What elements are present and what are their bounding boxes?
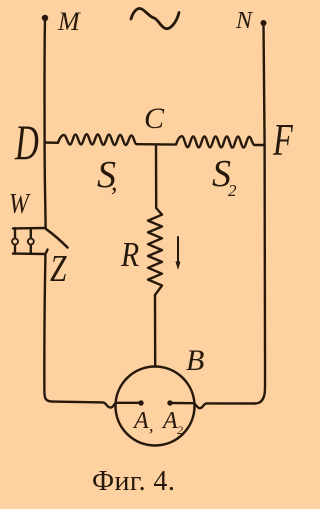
svg-text:F: F bbox=[272, 116, 293, 165]
wire: from A2 out right side of cell bbox=[173, 403, 256, 408]
current direction arrow bbox=[177, 237, 179, 262]
switch: right contact stems bbox=[30, 228, 32, 254]
svg-text:C: C bbox=[144, 102, 165, 135]
svg-text:2: 2 bbox=[228, 181, 237, 200]
wire: from R down to cell B bbox=[154, 295, 157, 367]
switch: left contact stems bbox=[14, 228, 16, 253]
terminal dot M bbox=[42, 15, 48, 21]
terminal dot N bbox=[261, 20, 267, 26]
svg-text:R: R bbox=[120, 236, 139, 275]
svg-text:,: , bbox=[149, 415, 154, 435]
svg-text:2: 2 bbox=[177, 423, 183, 437]
switch: right contact circle bbox=[28, 239, 34, 245]
svg-text:A: A bbox=[161, 408, 178, 434]
bridge wire D-C-F with slide-wire windings bbox=[45, 134, 265, 147]
svg-text:,: , bbox=[111, 167, 118, 196]
resistor R vertical zigzag bbox=[148, 208, 162, 295]
electrode dot A1 bbox=[138, 400, 143, 405]
svg-text:A: A bbox=[132, 408, 149, 434]
AC source sine symbol bbox=[131, 9, 179, 29]
wire: right vertical from N down to bottom corner bbox=[255, 24, 265, 404]
svg-text:W: W bbox=[9, 188, 31, 219]
wire: stem from C down to R bbox=[155, 145, 158, 208]
svg-text:D: D bbox=[14, 115, 39, 170]
switch: top rail bbox=[13, 227, 46, 230]
switch lever Z bbox=[46, 229, 68, 248]
switch: bottom rail with hook bbox=[13, 250, 48, 255]
wire: bottom left from switch down and right to cell bbox=[44, 255, 138, 408]
svg-text:M: M bbox=[57, 7, 81, 36]
switch: left contact circle bbox=[12, 239, 18, 245]
electrode dot A2 bbox=[167, 400, 172, 405]
wire: left vertical from M down to switch bbox=[45, 19, 46, 227]
svg-text:B: B bbox=[186, 344, 204, 377]
electrolytic cell B circle bbox=[116, 367, 195, 446]
svg-text:Z: Z bbox=[50, 249, 67, 290]
svg-text:N: N bbox=[235, 8, 254, 34]
svg-text:Фиг. 4.: Фиг. 4. bbox=[92, 466, 175, 497]
